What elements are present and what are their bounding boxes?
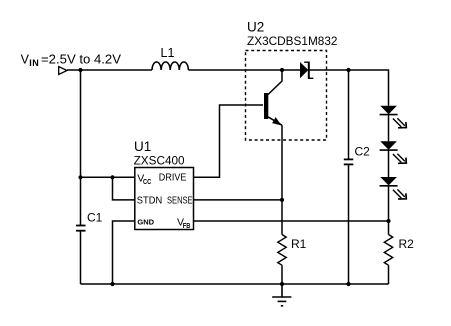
junction: VFB / LED string / R2 node [386,219,390,223]
wire: LED D4 to VFB node [388,186,390,221]
junction: GND at bottom rail [110,282,114,286]
junction: STDN tie to VCC wire [110,175,114,179]
pin label VFB [177,217,190,230]
svg-text:CC: CC [143,179,151,186]
svg-text:STDN: STDN [137,195,162,207]
svg-text:L1: L1 [161,46,175,60]
junction: VIN node on left rail [78,68,82,72]
wire: left rail down to C1 [80,70,82,226]
wire: Q1 emitter down to SENSE node [281,125,283,200]
wire: R1 to bottom rail [281,265,283,284]
pin label VCC [137,172,151,185]
ground symbol [272,284,291,306]
capacitor C1 [76,226,86,231]
wire: STDN pin tied up to VCC wire [113,177,135,200]
svg-text:SENSE: SENSE [167,195,193,207]
label net VIN: "VIN =2.5V to 4.2V" [21,52,122,68]
wire: VIN terminal to L1 [67,69,152,71]
wire: SENSE node down to R1 [281,200,283,235]
module U2 dashed outline [246,51,327,141]
wire: VFB pin to LED/R2 node [194,220,389,222]
svg-text:ZX3CDBS1M832: ZX3CDBS1M832 [247,36,338,48]
wire: VFB node down to R2 [388,221,390,235]
LED D3 (middle of string) [380,141,407,163]
svg-text:=2.5V to 4.2V: =2.5V to 4.2V [41,52,122,66]
wire: LED D2 to LED D3 [388,115,390,142]
svg-text:U1: U1 [134,139,151,154]
junction: collector / diode anode node [280,68,284,72]
wire: C1 to bottom rail [80,231,82,284]
svg-text:GND: GND [137,218,154,227]
svg-text:IN: IN [29,58,39,68]
resistor R1 [278,235,286,266]
wire: R2 to bottom rail [388,265,390,284]
wire: GND pin to bottom rail [113,221,135,284]
svg-text:U2: U2 [247,20,264,35]
LED D4 (bottom of string) [380,177,407,199]
svg-text:DRIVE: DRIVE [159,172,187,183]
svg-text:V: V [21,52,30,66]
capacitor C2 [344,159,354,164]
wire: diode cathode to LED branch corner [309,70,389,106]
wire: SENSE pin to emitter/R1 node [194,199,283,201]
wire: DRIVE pin to Q1 base [194,105,264,177]
svg-text:FB: FB [183,223,191,230]
svg-text:R2: R2 [399,237,415,251]
junction: C2 bottom on rail [346,282,350,286]
IC U1 box [135,168,194,230]
inductor L1 [152,62,188,70]
wire: VCC pin to left rail [81,176,135,178]
transistor Q1 (NPN) in U2 [264,70,282,125]
svg-text:C1: C1 [87,211,103,225]
junction: SENSE / emitter / R1 node [280,198,284,202]
schottky diode D1 in U2 [300,62,313,80]
wire: bottom ground rail [81,283,389,285]
wire: L1 to U2 (diode anode / collector node) [188,69,300,71]
svg-text:R1: R1 [291,237,307,251]
wire: C2 branch upper [348,70,350,159]
svg-text:C2: C2 [355,144,371,158]
junction: VCC tap on left rail [78,175,82,179]
LED D2 (top of string) [380,106,407,128]
resistor R2 [384,235,392,266]
junction: C2 top node [346,68,350,72]
svg-text:ZXSC400: ZXSC400 [134,155,185,167]
input terminal arrow (VIN) [59,67,67,75]
wire: C2 to bottom rail [348,164,350,284]
wire: LED D3 to LED D4 [388,150,390,177]
junction: ground node on bottom rail [280,282,284,286]
